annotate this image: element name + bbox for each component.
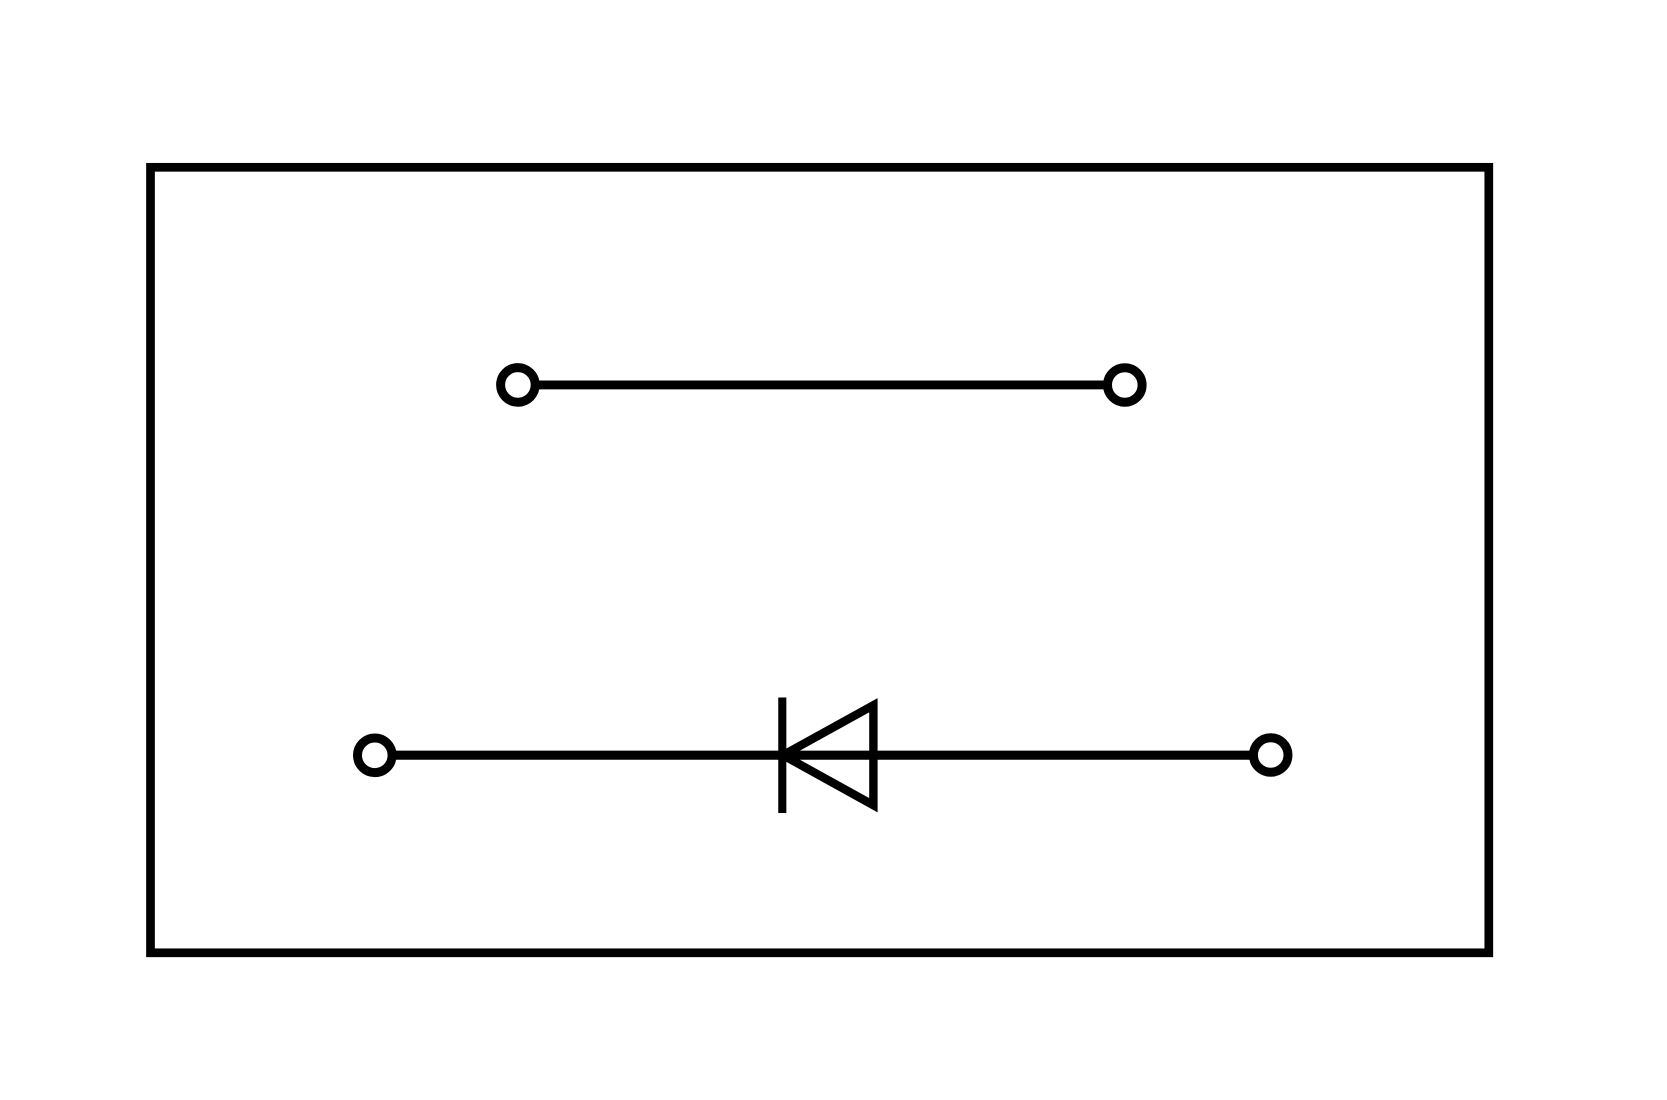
wire (top feed-through conductor) [539,380,1104,389]
terminal circle (top wire, right clamp) [1108,368,1143,403]
component outline (terminal block body) [151,167,1489,953]
wire (bottom conductor, left segment to diode) [396,751,783,760]
terminal circle (bottom wire, right clamp) [1253,738,1288,773]
wire (bottom conductor, right segment from diode) [783,751,1250,760]
terminal circle (top wire, left clamp) [501,368,536,403]
diode D1 anode triangle [783,705,873,805]
diode D1 cathode bar [778,698,786,814]
terminal circle (bottom wire, left clamp) [358,738,393,773]
